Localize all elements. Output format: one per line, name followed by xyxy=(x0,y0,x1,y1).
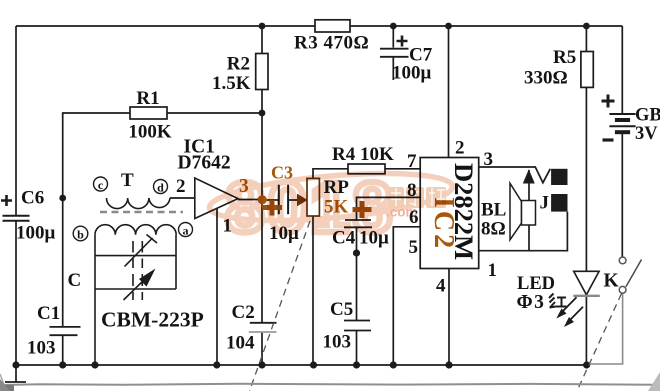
wire R1 feedback loop xyxy=(63,113,262,198)
svg-text:J: J xyxy=(540,193,550,214)
svg-text:5: 5 xyxy=(409,237,419,258)
wire IC1 pin1 to rail xyxy=(216,208,218,365)
wire IC2 pin1 to jack sleeve xyxy=(479,212,568,251)
watermark chinese 电子城 xyxy=(388,187,446,208)
svg-text:330Ω: 330Ω xyxy=(524,68,568,89)
gang 2 arrowhead xyxy=(139,269,156,287)
wire IC2 pin8 to C4 xyxy=(357,197,421,219)
speaker BL cone xyxy=(510,183,522,240)
svg-text:R1: R1 xyxy=(136,88,159,109)
resistor R3 xyxy=(294,20,369,54)
svg-text:4: 4 xyxy=(436,276,446,297)
LED cathode bar xyxy=(573,295,600,297)
svg-text:Φ3: Φ3 xyxy=(517,292,546,313)
svg-text:1: 1 xyxy=(488,260,498,281)
svg-text:a: a xyxy=(183,224,189,238)
node transformer top junction xyxy=(59,195,66,202)
svg-text:100K: 100K xyxy=(128,122,172,143)
svg-text:1.5K: 1.5K xyxy=(212,73,251,94)
speaker arrow xyxy=(523,169,535,183)
svg-text:BL: BL xyxy=(481,200,506,221)
svg-text:D7642: D7642 xyxy=(178,153,231,174)
ground stub bottom-left xyxy=(15,365,17,382)
svg-text:C2: C2 xyxy=(232,302,255,323)
speaker BL frame xyxy=(522,201,536,226)
svg-text:T: T xyxy=(121,170,134,191)
wire IC2 pin6 to rail xyxy=(393,227,420,365)
variable capacitor C box (CBM-223P) xyxy=(95,235,176,366)
svg-text:GB: GB xyxy=(635,106,660,126)
transformer core dashed line xyxy=(100,211,183,214)
svg-text:104: 104 xyxy=(226,333,255,354)
capacitor C3 (electrolytic, orange labels) xyxy=(262,163,299,245)
wire speaker vertical xyxy=(528,170,530,251)
wire switch to rail (gray) xyxy=(587,293,623,364)
svg-text:.com: .com xyxy=(386,205,418,220)
svg-text:C1: C1 xyxy=(37,303,60,324)
svg-text:b: b xyxy=(77,228,84,242)
resistor R5 xyxy=(524,47,593,89)
svg-text:R3 470Ω: R3 470Ω xyxy=(294,33,369,54)
wire IC2 pin4 to rail xyxy=(448,269,450,366)
svg-text:C: C xyxy=(68,270,82,291)
jack J plug (tip/ring/sleeve) xyxy=(551,169,567,185)
svg-text:3V: 3V xyxy=(635,124,658,144)
mechanical link dashed line RP xyxy=(250,221,311,391)
svg-text:LED: LED xyxy=(517,274,555,294)
battery + sign xyxy=(602,95,615,108)
capacitor C6 (electrolytic) xyxy=(1,188,56,244)
svg-text:8Ω: 8Ω xyxy=(481,219,506,240)
op-amp IC1 triangle xyxy=(195,178,238,219)
capacitor C2 xyxy=(226,302,277,354)
potentiometer RP xyxy=(307,177,349,218)
switch K circles xyxy=(619,257,626,264)
svg-text:R5: R5 xyxy=(553,47,576,68)
svg-text:100μ: 100μ xyxy=(16,223,56,244)
svg-text:K: K xyxy=(604,271,620,292)
switch K lever xyxy=(626,260,642,287)
wire battery branch xyxy=(621,26,623,114)
gang 2 plates xyxy=(132,274,134,286)
wire C1 branch xyxy=(62,198,64,327)
svg-text:103: 103 xyxy=(323,332,352,353)
wire primary leads xyxy=(170,197,195,199)
LED emission arrow 1 xyxy=(556,297,576,318)
terminal c xyxy=(94,177,108,192)
torn paper bottom edge xyxy=(0,372,660,391)
gang 1 plates xyxy=(132,241,134,253)
mechanical link dashed line K xyxy=(577,294,622,391)
capacitor C4 (electrolytic) xyxy=(332,201,389,249)
gang 2 arrow diagonal xyxy=(124,276,149,300)
node IC1 out junction (orange dot) xyxy=(258,195,267,204)
RP wiper arrow xyxy=(297,194,308,207)
svg-text:CBM-223P: CBM-223P xyxy=(101,308,204,332)
wire main vertical x262 (R2/C2) xyxy=(261,26,263,323)
svg-text:c: c xyxy=(98,178,104,192)
transformer T primary winding xyxy=(107,198,171,209)
wire C3 leads xyxy=(266,199,279,201)
resistor R2 xyxy=(212,54,268,95)
gang 1 trimmer diagonal xyxy=(125,238,153,267)
LED diode triangle xyxy=(574,271,599,295)
terminal a xyxy=(179,223,193,238)
wire C4 to C5 to rail xyxy=(356,227,358,320)
transformer T secondary winding xyxy=(95,225,176,235)
terminal b xyxy=(73,226,88,241)
resistor R1 xyxy=(128,88,172,143)
svg-text:3: 3 xyxy=(484,149,494,170)
label hong (red) glyph xyxy=(549,294,567,308)
capacitor C5 xyxy=(323,299,372,353)
IC2 box xyxy=(420,158,479,269)
wire RP bottom to rail xyxy=(312,216,314,365)
battery GB cells xyxy=(609,114,635,132)
wire top rail xyxy=(16,25,622,27)
resistor R4 xyxy=(332,144,394,174)
svg-text:7: 7 xyxy=(407,151,417,172)
svg-text:C6: C6 xyxy=(21,188,44,209)
node R1/R2 junction xyxy=(259,110,266,117)
wire IC2 pin2 to top rail xyxy=(448,26,450,158)
svg-text:R4 10K: R4 10K xyxy=(332,144,394,165)
terminal d xyxy=(154,180,168,195)
capacitor C1 xyxy=(27,303,81,359)
node C4 bottom junction xyxy=(353,249,360,256)
svg-text:2: 2 xyxy=(176,176,186,197)
battery - sign xyxy=(603,138,614,141)
svg-text:C5: C5 xyxy=(330,299,353,320)
svg-text:d: d xyxy=(157,181,164,195)
wire bottom rail xyxy=(16,364,587,366)
svg-text:103: 103 xyxy=(27,338,56,359)
svg-text:2: 2 xyxy=(455,138,465,159)
capacitor C7 (electrolytic) xyxy=(380,26,433,84)
watermark logo 8018 ellipse xyxy=(208,165,455,248)
wire IC1 output to node xyxy=(238,199,258,201)
wire left vertical (C6 branch) xyxy=(15,26,17,216)
wire R5/LED vertical xyxy=(585,26,587,271)
svg-text:R2: R2 xyxy=(227,54,250,75)
wire IC2 pin3 to jack contact xyxy=(479,167,551,183)
svg-text:100μ: 100μ xyxy=(392,63,432,84)
node top rail junctions xyxy=(259,23,266,30)
wire RP top to IC2 pin7 xyxy=(313,169,420,179)
node bottom rail junctions xyxy=(12,361,590,368)
LED emission arrow 2 xyxy=(564,307,583,327)
svg-text:D2822M: D2822M xyxy=(449,163,479,260)
